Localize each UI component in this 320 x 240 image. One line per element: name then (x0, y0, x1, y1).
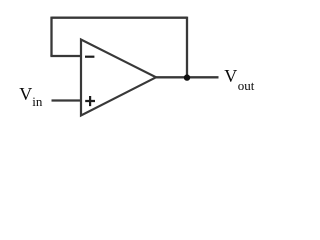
op-amp U1 triangle (81, 40, 156, 116)
label Vin letter V (19, 85, 32, 103)
wire output (155, 76, 219, 78)
label Vout subscript out (238, 79, 255, 92)
label Vin subscript in (32, 95, 42, 108)
wire feedback right vertical down to output node (186, 17, 188, 78)
op-amp plus sign (non-inverting input) (85, 96, 95, 106)
op-amp minus sign (inverting input) (85, 56, 94, 58)
node junction dot at output/feedback (184, 74, 190, 80)
wire non-inverting input from Vin (52, 99, 82, 101)
label Vout letter V (224, 67, 237, 85)
wire feedback top horizontal (52, 17, 188, 19)
wire feedback left vertical down to inverting input level (50, 17, 52, 56)
wire inverting input (50, 55, 81, 57)
